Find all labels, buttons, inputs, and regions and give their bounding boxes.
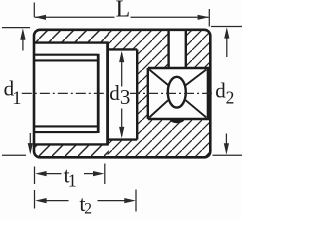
- ball hole ellipse: [168, 77, 186, 108]
- dimension d3 line lower segment with arrow: [119, 109, 124, 139]
- svg-text:1: 1: [68, 170, 77, 190]
- dimension t1 extension right: [104, 164, 106, 185]
- hex flat line lower: [34, 125, 97, 127]
- dimension L arrow right: [198, 15, 209, 20]
- square face diagonal top-left: [149, 70, 168, 86]
- hatch wall bottom-right band: [148, 119, 210, 156]
- hatch wall top-right right of pin slot: [186, 31, 209, 68]
- hatch wall below chamber: [108, 140, 137, 157]
- dimension t1 extension left: [34, 167, 36, 185]
- hex flat line upper: [34, 59, 97, 61]
- svg-text:d: d: [109, 81, 120, 105]
- centre line left segment: [22, 92, 109, 94]
- dimension t2 line left with arrow: [35, 198, 68, 203]
- chamber top edge: [108, 48, 138, 50]
- hatch wall band between chamber and square hole: [137, 31, 148, 156]
- dimension d1 arrow down: [28, 133, 33, 155]
- dimension t1 line left with arrow: [35, 171, 61, 176]
- square hole right edge: [207, 68, 210, 119]
- dimension L extension right: [208, 9, 210, 27]
- square face diagonal top-right: [186, 70, 207, 86]
- dimension t1 line right with arrow: [84, 171, 104, 176]
- pin slot left wall: [167, 31, 169, 68]
- square face diagonal bottom-right: [186, 100, 207, 117]
- hex bore top inner edge: [34, 41, 109, 43]
- pin slot right wall: [185, 31, 187, 68]
- hatch wall bottom-left band: [35, 145, 109, 157]
- dimension d2 extension top: [211, 26, 242, 28]
- svg-text:2: 2: [84, 200, 92, 217]
- hex corner line upper outer: [34, 54, 97, 56]
- svg-text:L: L: [116, 0, 131, 23]
- dimension d1 extension bottom: [2, 154, 26, 156]
- hatch wall top-left band: [35, 31, 109, 43]
- dimension L line left segment: [35, 16, 115, 18]
- hatch wall top-right left of pin slot: [148, 31, 169, 68]
- square hole left face: [147, 68, 149, 119]
- hex bore end wall: [97, 54, 100, 133]
- dimension t2 line right with arrow: [98, 198, 136, 203]
- socket body outline: [34, 30, 210, 158]
- square hole bottom edge: [148, 118, 209, 120]
- dimension d1 extension top: [2, 27, 30, 29]
- detent ball seat: [170, 119, 185, 123]
- dimension t2 extension left: [34, 190, 36, 209]
- square hole top edge: [148, 67, 209, 69]
- dimension d3 line upper segment with arrow: [119, 51, 124, 87]
- svg-text:2: 2: [226, 88, 235, 108]
- dimension d1 arrow up: [20, 28, 25, 50]
- dimension L line right segment: [131, 16, 209, 18]
- dimension d2 arrow down: [224, 134, 229, 155]
- hex corner line lower outer: [34, 131, 97, 133]
- centre line right segment: [130, 92, 214, 94]
- hatch wall above chamber: [108, 31, 137, 49]
- dimension d2 extension bottom: [213, 154, 243, 156]
- hex bore bottom inner edge: [34, 143, 109, 145]
- chamber right wall: [136, 49, 138, 139]
- dimension t2 extension right: [135, 190, 137, 212]
- dimension L extension left: [33, 3, 35, 18]
- dimension L arrow left: [35, 15, 46, 20]
- square face diagonal bottom-left: [149, 100, 168, 117]
- svg-text:1: 1: [12, 89, 21, 109]
- svg-text:d: d: [215, 78, 226, 102]
- chamber bottom edge: [108, 138, 138, 140]
- chamber left wall: [106, 43, 109, 145]
- dimension d2 arrow up: [224, 27, 229, 57]
- svg-text:3: 3: [120, 85, 130, 109]
